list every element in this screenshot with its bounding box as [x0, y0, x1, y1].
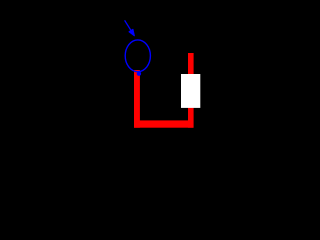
wire: right vertical through resistor — [188, 53, 194, 128]
wire: left vertical from current source to bottom rail — [134, 70, 140, 128]
current source I1 — [125, 40, 150, 72]
arrow: current direction indicator — [125, 20, 135, 35]
resistor R1 — [181, 74, 200, 108]
node A: junction dot — [137, 72, 141, 76]
wire: bottom horizontal rail — [134, 120, 193, 127]
